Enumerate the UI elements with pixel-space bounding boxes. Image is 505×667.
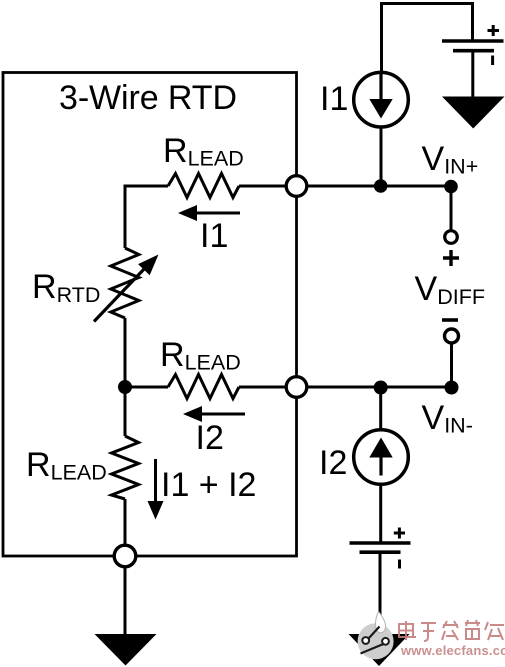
wire battery B2 to ground — [379, 554, 382, 636]
resistor R_LEAD (bottom vertical) — [112, 436, 139, 499]
node (box right edge, row1, open circle) — [286, 176, 307, 197]
watermark logo node left — [362, 637, 369, 644]
wire row1 left corner — [125, 186, 168, 248]
node (box bottom, open circle) — [114, 545, 136, 567]
current arrow I1 (left-pointing) — [196, 212, 240, 215]
svg-text:VIN-: VIN- — [422, 399, 473, 438]
current arrow I1+I2 (down) — [154, 459, 157, 502]
node V_IN+ (dot) — [444, 180, 458, 194]
current source I2 — [354, 430, 409, 485]
wire R_RTD to junction — [124, 318, 127, 387]
watermark logo link line 2 — [361, 644, 384, 654]
battery B2 bottom plate — [360, 550, 401, 554]
svg-text:VIN+: VIN+ — [422, 140, 479, 179]
wire battery B1 to ground — [471, 53, 474, 99]
svg-text:RLEAD: RLEAD — [160, 336, 241, 375]
junction node I1/row1 — [374, 179, 388, 193]
wire V_IN+ to terminal — [450, 187, 453, 231]
battery B2 top plate — [350, 541, 411, 545]
V_DIFF plus sign — [443, 250, 459, 266]
wire I2 to battery B2 — [379, 485, 382, 542]
watermark logo circle — [358, 612, 394, 660]
wire terminal to V_IN- node — [450, 344, 453, 382]
current arrow I2 (left-pointing) — [201, 413, 245, 416]
terminal V_DIFF plus (open circle) — [445, 231, 458, 244]
node (box right edge, row2, open circle) — [286, 377, 307, 398]
svg-text:I2: I2 — [196, 419, 224, 457]
svg-text:I1: I1 — [320, 80, 348, 118]
node V_IN- (dot) — [445, 381, 459, 395]
RTD box — [3, 73, 297, 557]
junction node I2/row2 — [374, 381, 388, 395]
wire node to I2 source — [379, 388, 382, 430]
battery B1 minus label — [491, 56, 494, 66]
wire row2 right — [239, 386, 452, 389]
resistor R_RTD (variable, vertical) — [111, 248, 139, 318]
wire row1 right — [239, 185, 451, 188]
ground (bottom right) — [349, 634, 410, 666]
resistor R_LEAD (top) — [168, 174, 239, 198]
wire row2 down to R_LEAD bottom — [124, 387, 127, 436]
svg-text:www.elecfans.com: www.elecfans.com — [400, 643, 505, 658]
battery B1 plus label — [488, 25, 500, 36]
V_DIFF minus sign — [442, 318, 458, 322]
ground (top right) — [442, 97, 505, 129]
R_RTD arrow — [94, 267, 146, 322]
current source I1 — [354, 72, 409, 127]
wire R_LEAD to bottom node — [124, 499, 127, 546]
battery B2 minus label — [398, 560, 401, 569]
svg-text:I1 + I2: I1 + I2 — [161, 466, 256, 504]
terminal V_DIFF minus (open circle) — [445, 329, 459, 343]
svg-text:RLEAD: RLEAD — [163, 132, 244, 171]
battery B2 plus label — [394, 528, 405, 539]
svg-text:I2: I2 — [319, 444, 347, 482]
svg-text:3-Wire RTD: 3-Wire RTD — [59, 79, 237, 117]
battery B1 bottom plate — [453, 49, 494, 53]
watermark logo flame — [376, 612, 386, 633]
battery B1 top plate — [442, 39, 504, 43]
watermark logo link line 1 — [369, 627, 380, 639]
svg-text:I1: I1 — [200, 217, 228, 255]
svg-text:VDIFF: VDIFF — [415, 270, 485, 309]
watermark chinese text — [399, 620, 504, 641]
wire I1 to node — [380, 127, 383, 186]
wire top loop I1 to battery — [382, 4, 473, 72]
watermark logo node right — [382, 638, 389, 645]
ground (bottom left) — [95, 634, 157, 666]
svg-text:RRTD: RRTD — [32, 268, 100, 307]
resistor R_LEAD (middle) — [168, 375, 239, 399]
wire bottom node to ground — [124, 567, 127, 636]
wire row2 left — [125, 386, 168, 389]
junction node (left, row2) — [118, 380, 132, 394]
svg-text:RLEAD: RLEAD — [26, 446, 107, 485]
